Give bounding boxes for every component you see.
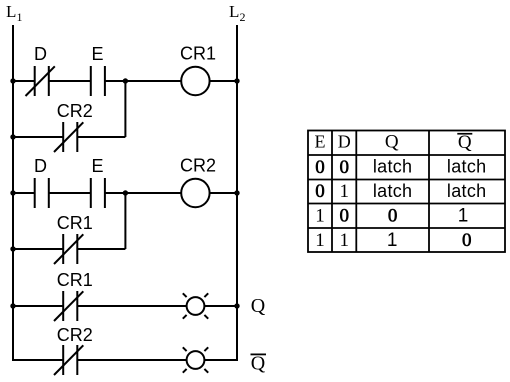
svg-text:1: 1 xyxy=(315,206,325,227)
svg-text:D: D xyxy=(34,44,47,64)
svg-text:E: E xyxy=(315,132,326,152)
svg-text:latch: latch xyxy=(447,181,487,201)
junction dot rung5-L1 xyxy=(10,303,15,308)
svg-text:E: E xyxy=(91,156,103,176)
svg-text:1: 1 xyxy=(339,230,349,251)
lamp Q xyxy=(183,293,208,318)
junction dot rung1-L1 xyxy=(10,78,15,83)
svg-text:CR2: CR2 xyxy=(57,101,93,121)
table column line Q|Qbar xyxy=(428,131,430,253)
svg-text:L: L xyxy=(229,2,239,21)
table column line D|Q xyxy=(355,131,357,253)
wire rung3 right xyxy=(105,192,181,194)
wire rung6 right xyxy=(77,359,186,361)
contact D (NO) rung3 xyxy=(35,178,49,208)
contact E (NO) rung1 xyxy=(91,66,105,96)
table row line 4 xyxy=(308,227,505,229)
wire coil CR2 to L2 xyxy=(210,192,237,194)
svg-text:latch: latch xyxy=(447,157,487,177)
wire coil CR1 to L2 xyxy=(210,80,237,82)
contact D (NC) rung1 xyxy=(26,66,55,96)
svg-text:0: 0 xyxy=(339,206,349,227)
contact CR2 (NC) rung2 xyxy=(54,122,83,152)
table row line 2 xyxy=(308,179,505,181)
svg-text:1: 1 xyxy=(315,230,325,251)
svg-text:1: 1 xyxy=(339,181,349,202)
svg-text:0: 0 xyxy=(388,206,398,227)
svg-text:CR1: CR1 xyxy=(180,44,216,64)
label Qbar output xyxy=(251,353,267,375)
svg-text:CR1: CR1 xyxy=(57,270,93,290)
svg-text:CR2: CR2 xyxy=(57,325,93,345)
svg-text:E: E xyxy=(91,44,103,64)
rail L2 xyxy=(236,25,238,361)
truth table xyxy=(308,131,505,253)
svg-text:Q: Q xyxy=(385,132,399,153)
contact E (NO) rung3 xyxy=(91,178,105,208)
svg-text:0: 0 xyxy=(339,157,349,178)
junction dot rung4-L1 xyxy=(10,246,15,251)
svg-text:CR2: CR2 xyxy=(180,156,216,176)
coil CR1 xyxy=(181,67,209,95)
svg-text:latch: latch xyxy=(373,157,413,177)
wire rung1 left xyxy=(13,80,35,82)
wire rung4 right xyxy=(77,248,125,250)
junction dot rung1-L2 xyxy=(234,78,239,83)
svg-text:L: L xyxy=(6,2,16,21)
contact CR1 (NC) rung4 xyxy=(54,234,83,264)
svg-text:0: 0 xyxy=(315,181,325,202)
wire rung4 left xyxy=(13,248,63,250)
coil CR2 xyxy=(181,179,209,207)
table row line 3 xyxy=(308,203,505,205)
wire rung2 left xyxy=(13,136,63,138)
wire rung1 right xyxy=(105,80,181,82)
svg-text:2: 2 xyxy=(240,10,246,24)
svg-text:1: 1 xyxy=(458,206,469,227)
svg-text:0: 0 xyxy=(315,157,325,178)
svg-text:Q: Q xyxy=(251,353,266,375)
wire lamp Qbar to L2 xyxy=(204,359,238,361)
junction dot rung5-L2 xyxy=(234,303,239,308)
lamp Qbar xyxy=(183,347,208,372)
wire branch rung4 up xyxy=(124,193,126,249)
svg-text:latch: latch xyxy=(373,181,413,201)
wire rung5 right xyxy=(77,305,186,307)
table row1: 0 0 latch latch xyxy=(315,157,486,178)
wire rung3 left xyxy=(13,192,35,194)
svg-text:CR1: CR1 xyxy=(57,213,93,233)
label L1 xyxy=(6,2,23,24)
table column line E|D xyxy=(331,131,333,253)
junction dot rung3-L1 xyxy=(10,190,15,195)
junction dot rung2-L1 xyxy=(10,134,15,139)
wire lamp Q to L2 xyxy=(204,305,237,307)
rail L1 xyxy=(12,25,14,361)
table row2: 0 1 latch latch xyxy=(315,181,486,202)
table header Qbar xyxy=(457,132,472,153)
wire rung6 left xyxy=(12,359,63,361)
svg-text:1: 1 xyxy=(387,230,398,251)
label L2 xyxy=(229,2,246,24)
svg-text:0: 0 xyxy=(462,230,472,251)
wire rung5 left xyxy=(13,305,63,307)
table frame xyxy=(308,131,505,253)
svg-text:D: D xyxy=(34,156,47,176)
contact CR1 (NC) rung5 xyxy=(54,291,83,321)
junction dot rung3-L2 xyxy=(234,190,239,195)
wire rung3 mid xyxy=(49,192,91,194)
svg-text:1: 1 xyxy=(17,10,23,24)
svg-text:Q: Q xyxy=(251,295,266,317)
table row3: 1 0 0 1 xyxy=(315,206,468,227)
svg-text:D: D xyxy=(338,132,351,152)
svg-text:Q: Q xyxy=(458,132,472,153)
table row4: 1 1 1 0 xyxy=(315,230,471,251)
wire branch rung2 up xyxy=(124,81,126,137)
junction dot rung1 branch xyxy=(123,78,128,83)
junction dot rung3 branch xyxy=(123,190,128,195)
wire rung2 right xyxy=(77,136,125,138)
wire rung1 mid xyxy=(49,80,91,82)
table row line 1 xyxy=(308,154,505,156)
contact CR2 (NC) rung6 xyxy=(54,345,83,375)
